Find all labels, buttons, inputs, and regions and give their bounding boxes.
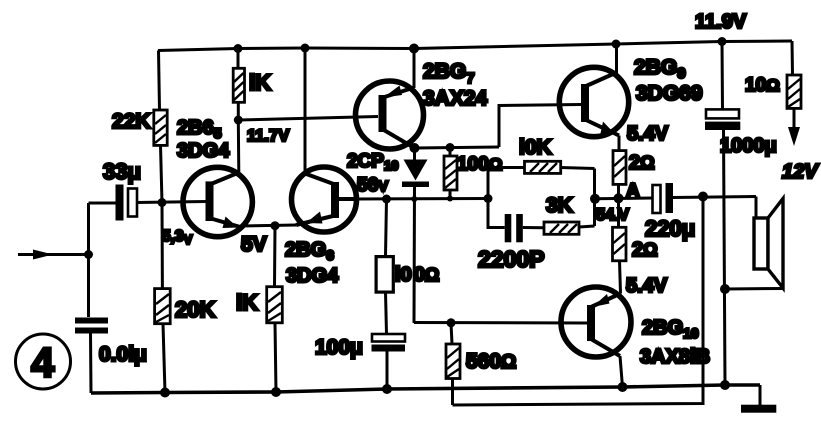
svg-text:10Ω: 10Ω bbox=[745, 75, 780, 96]
ground symbol bbox=[741, 385, 776, 413]
node feedback tie junction bbox=[590, 194, 600, 204]
svg-text:5.4V: 5.4V bbox=[627, 123, 669, 145]
resistor 2ohm R8 bbox=[613, 136, 626, 199]
wire bottom ground rail bbox=[91, 385, 760, 393]
wire 1000u ground line bbox=[724, 130, 726, 385]
svg-text:560Ω: 560Ω bbox=[466, 350, 516, 373]
capacitor 33u bbox=[89, 185, 207, 221]
12V output arrow bbox=[788, 127, 800, 146]
node 1000u ground junction bbox=[720, 380, 730, 390]
transistor Q2 2BG6 bbox=[292, 167, 357, 232]
wire top supply rail bbox=[158, 41, 793, 75]
node A junction bbox=[614, 193, 624, 203]
svg-text:22K: 22K bbox=[112, 110, 151, 133]
wire Q4 base bbox=[499, 105, 581, 148]
transistor Q4 2BG9 bbox=[559, 67, 628, 136]
svg-text:54.V: 54.V bbox=[596, 206, 629, 224]
svg-text:11.7V: 11.7V bbox=[247, 127, 289, 145]
svg-text:33μ: 33μ bbox=[103, 159, 141, 184]
svg-text:11.9V: 11.9V bbox=[695, 11, 747, 33]
node R6 top junction bbox=[382, 195, 391, 204]
wire feedback line y199 bbox=[357, 197, 489, 201]
svg-text:5.4V: 5.4V bbox=[626, 275, 668, 297]
svg-text:A: A bbox=[626, 181, 640, 202]
node rail-1K junction bbox=[234, 44, 243, 53]
svg-text:2Ω: 2Ω bbox=[629, 152, 655, 174]
svg-text:0.0lμ: 0.0lμ bbox=[99, 343, 147, 366]
resistor 100ohm R6 bbox=[376, 199, 393, 334]
wire emitter bus bbox=[240, 225, 296, 226]
svg-text:220μ: 220μ bbox=[645, 216, 695, 241]
svg-text:12V: 12V bbox=[782, 161, 819, 183]
node 560 top junction bbox=[447, 318, 456, 327]
transistor Q1 2BG5 bbox=[183, 167, 252, 236]
wire Q4 collector bbox=[615, 44, 618, 73]
svg-text:2Ω: 2Ω bbox=[632, 239, 658, 261]
input terminal arrow bbox=[18, 250, 88, 260]
node speaker ground junction bbox=[720, 284, 730, 294]
speaker bbox=[725, 197, 783, 290]
wire node A bbox=[595, 197, 653, 201]
svg-text:5V: 5V bbox=[241, 233, 267, 256]
capacitor 2200P bbox=[488, 199, 544, 243]
transistor Q5 2BG10 bbox=[561, 287, 631, 357]
node emitter bus junction bbox=[271, 221, 280, 230]
resistor 1K R4 bbox=[267, 226, 283, 392]
wire Q2 collector bbox=[304, 48, 307, 174]
node rail-Q3 emitter junction bbox=[409, 44, 419, 54]
node R5 bottom crossing bbox=[447, 196, 453, 202]
wire Q1 collector bbox=[237, 120, 241, 173]
resistor 1K R2 bbox=[233, 49, 244, 121]
resistor 3K bbox=[544, 222, 595, 234]
svg-text:3K: 3K bbox=[546, 194, 573, 217]
resistor 20K bbox=[155, 203, 171, 393]
resistor 22K bbox=[154, 51, 167, 203]
node rail-Q2 collector junction bbox=[301, 44, 310, 53]
wire diode to Q5 base bbox=[413, 187, 417, 323]
resistor 560ohm bbox=[446, 323, 460, 405]
capacitor 1000u bbox=[705, 42, 740, 131]
svg-text:56V: 56V bbox=[357, 175, 388, 196]
svg-text:l0K: l0K bbox=[519, 136, 552, 159]
svg-text:4: 4 bbox=[31, 339, 55, 386]
node 20K ground junction bbox=[160, 388, 170, 398]
capacitor 220u bbox=[653, 183, 757, 213]
svg-text:2200P: 2200P bbox=[478, 246, 545, 272]
svg-text:1000μ: 1000μ bbox=[720, 135, 777, 157]
wire collector node y147 bbox=[415, 147, 500, 148]
wire input vertical bbox=[87, 203, 90, 317]
node Q3 base junction bbox=[234, 116, 243, 125]
svg-text:lK: lK bbox=[236, 290, 258, 315]
wire bootstrap rail2 bbox=[453, 197, 704, 406]
svg-text:3DG69: 3DG69 bbox=[636, 82, 703, 105]
capacitor 100u bbox=[372, 334, 406, 389]
svg-text:lK: lK bbox=[249, 70, 271, 95]
node Q5 ground junction bbox=[618, 382, 628, 392]
node R5 top junction bbox=[446, 143, 455, 152]
svg-text:3AX8lB: 3AX8lB bbox=[640, 346, 710, 368]
node input junction bbox=[84, 250, 93, 259]
svg-text:3AX24: 3AX24 bbox=[423, 87, 488, 110]
svg-text:3DG4: 3DG4 bbox=[177, 140, 230, 162]
figure number 4 bbox=[16, 334, 71, 389]
svg-text:100μ: 100μ bbox=[315, 336, 363, 359]
capacitor 0.01u bbox=[75, 318, 108, 394]
wire Q3 emitter bbox=[413, 49, 416, 89]
node 10K-2200P junction bbox=[484, 194, 493, 203]
diode 2CP10 bbox=[402, 148, 429, 187]
wire Q5 base bbox=[414, 321, 587, 325]
svg-text:3DG4: 3DG4 bbox=[286, 265, 339, 287]
wire 10K-3K tie bbox=[593, 169, 596, 227]
node 100u ground junction bbox=[382, 384, 392, 394]
node diode top junction bbox=[410, 143, 420, 153]
resistor 2ohm R9 bbox=[613, 198, 627, 293]
svg-text:100Ω: 100Ω bbox=[457, 154, 502, 175]
transistor Q3 2BG7 bbox=[356, 81, 424, 149]
svg-text:l00Ω: l00Ω bbox=[395, 264, 439, 286]
node rail-Q4 collector junction bbox=[612, 40, 621, 49]
node rail-1000u junction bbox=[718, 37, 727, 46]
node base Q1 junction bbox=[158, 198, 167, 207]
node 1K ground junction bbox=[271, 387, 281, 397]
resistor 100ohm R5 bbox=[444, 148, 457, 199]
svg-text:20K: 20K bbox=[175, 297, 215, 322]
node diode line crossing bbox=[411, 196, 417, 202]
resistor 10K bbox=[488, 161, 595, 198]
wire Q5 collector bbox=[620, 356, 623, 387]
wire Q3 base bbox=[238, 117, 378, 121]
node bootstrap top junction bbox=[698, 192, 708, 202]
resistor 10ohm bbox=[787, 75, 801, 128]
